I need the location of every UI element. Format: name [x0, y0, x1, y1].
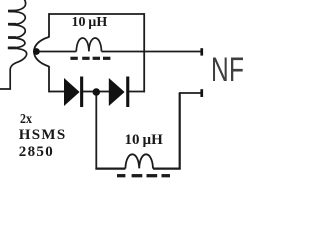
- wire: top side of loop: [49, 13, 144, 15]
- label: 10 uH (top choke value): [72, 16, 108, 30]
- label: 2x (diode count): [20, 113, 32, 127]
- wire: bottom wire left segment: [95, 168, 125, 170]
- wire: tap bulge around node A: [34, 37, 49, 67]
- core dashes of bottom choke: [117, 174, 170, 177]
- node A junction dot on tap: [33, 48, 40, 55]
- label: 2850 (diode part number line 2): [19, 145, 54, 160]
- wire: right vertical of loop: [143, 13, 145, 92]
- label: 10 uH (bottom choke value): [125, 133, 163, 148]
- wire: diode row right segment: [129, 91, 146, 93]
- core dashes of top choke: [70, 57, 110, 60]
- wire: left vertical of loop (lower part): [48, 66, 50, 92]
- wire: diode row between D1 and dot: [82, 91, 94, 93]
- wire: output stub lower: [179, 92, 201, 94]
- output terminal tick (lower NF): [200, 89, 203, 97]
- inductor L3 10uH (bottom choke humps): [125, 154, 153, 168]
- wire: diode row left segment: [49, 91, 65, 93]
- wire: from junction dot down: [95, 94, 97, 170]
- diode D2 (HSMS-2850): [109, 77, 130, 108]
- junction dot between diodes: [93, 88, 101, 96]
- label: NF output: [211, 53, 244, 87]
- coil L1 (antenna coil, left edge): [0, 0, 27, 89]
- wire: middle wire from tap to choke: [36, 51, 76, 53]
- wire: middle wire from choke to output: [102, 51, 201, 53]
- wire: bottom wire right segment: [153, 168, 181, 170]
- label: HSMS (diode part number line 1): [19, 128, 67, 143]
- wire: diode row between dot and D2: [99, 91, 110, 93]
- inductor L2 10uH (top choke humps): [76, 38, 101, 52]
- output terminal tick (upper NF): [200, 48, 203, 55]
- wire: left vertical of loop (upper part): [48, 13, 50, 37]
- wire: right vertical to output stub: [179, 93, 181, 170]
- diode D1 (HSMS-2850): [64, 77, 83, 108]
